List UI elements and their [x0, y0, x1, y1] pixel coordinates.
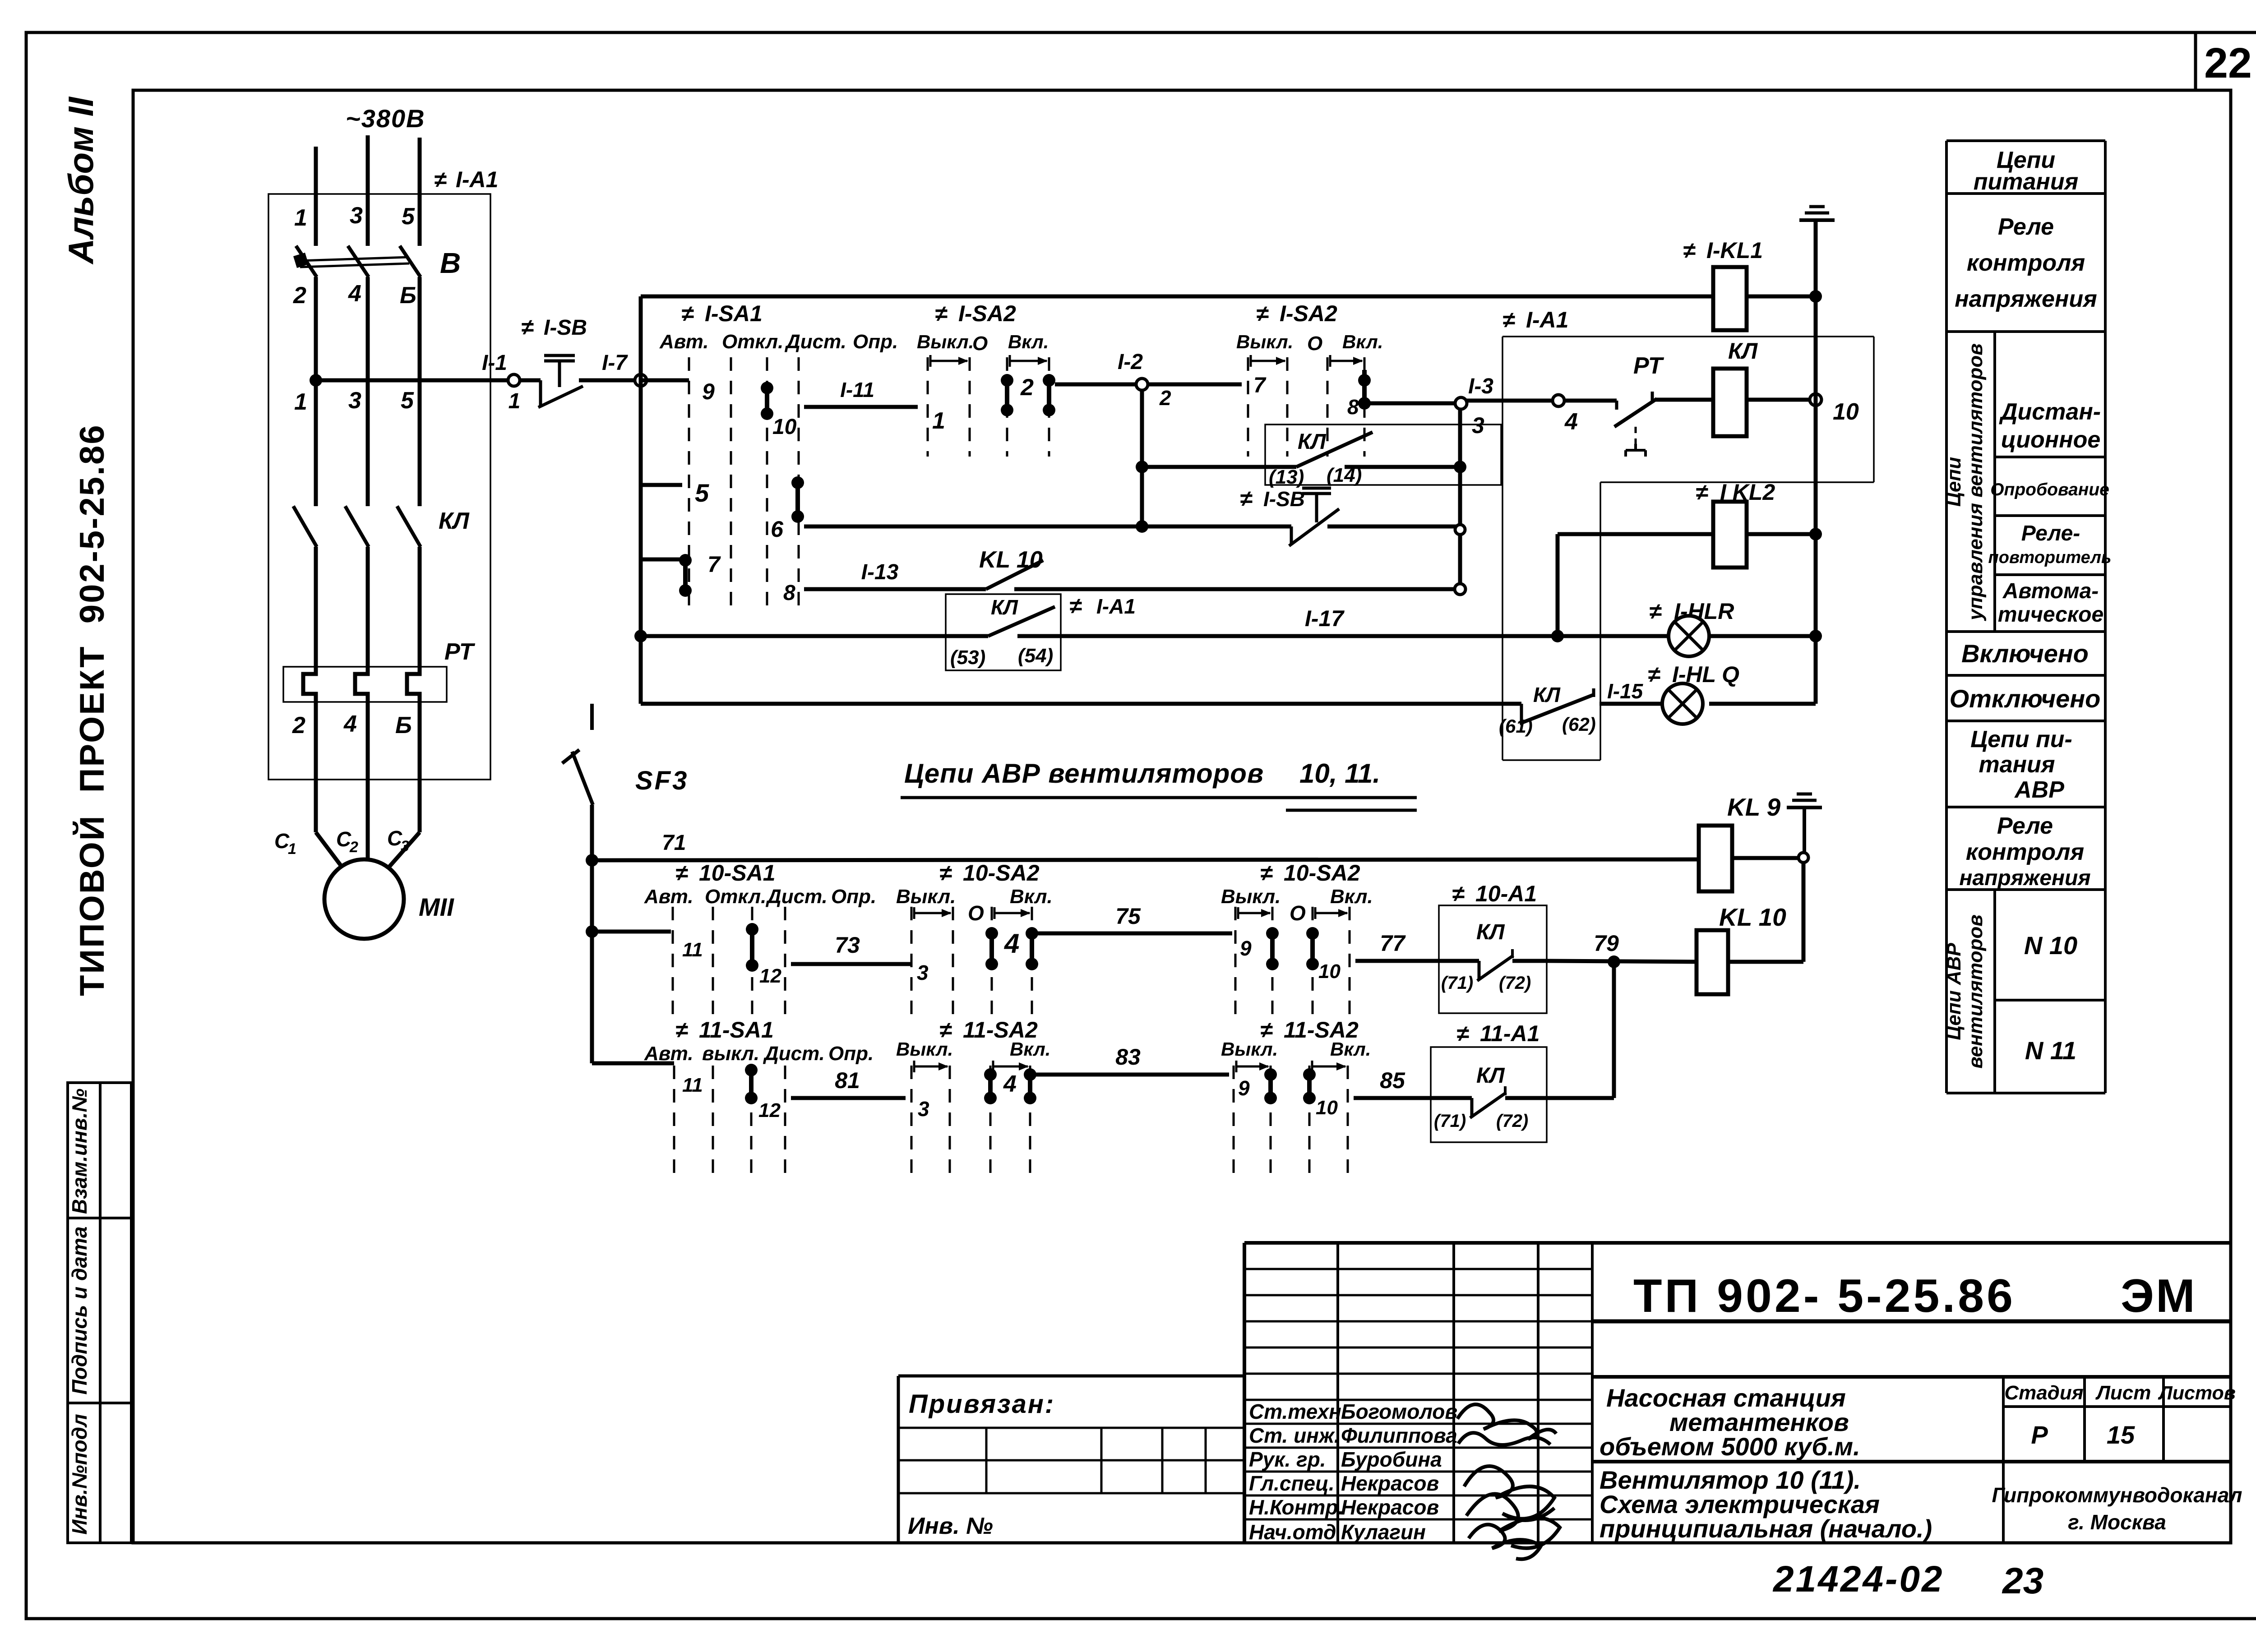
svg-text:Вкл.: Вкл.: [1010, 886, 1053, 908]
svg-text:КЛ: КЛ: [1298, 430, 1327, 454]
svg-text:I-15: I-15: [1607, 679, 1644, 703]
svg-text:C: C: [274, 829, 290, 853]
title block: project name: [1592, 1377, 2231, 1461]
wire 85: [1354, 1068, 1431, 1098]
phase wire L2 top: [366, 135, 370, 246]
svg-text:Филиппова: Филиппова: [1341, 1424, 1457, 1447]
svg-text:Откл.: Откл.: [705, 886, 766, 908]
svg-text:C: C: [336, 827, 351, 851]
svg-text:Выкл.: Выкл.: [896, 886, 956, 908]
svg-text:≠: ≠: [1683, 238, 1696, 263]
svg-text:I-SA2: I-SA2: [1280, 301, 1337, 326]
svg-text:5: 5: [402, 203, 415, 230]
svg-text:Выкл.: Выкл.: [1221, 886, 1281, 908]
svg-text:КЛ: КЛ: [991, 595, 1018, 619]
svg-text:Листов: Листов: [2158, 1382, 2236, 1404]
svg-text:Некрасов: Некрасов: [1341, 1472, 1439, 1495]
table row: power circuits: [1974, 147, 2078, 195]
svg-text:I-7: I-7: [602, 351, 628, 375]
svg-text:4: 4: [1564, 409, 1578, 435]
control feed top bus: [641, 295, 1713, 299]
branch to 11-SA1: [592, 1061, 674, 1066]
left stamp boxes (Vzam.inv, Podpis i data, Inv.N podl): [68, 1083, 131, 1543]
terminal I-1: [508, 374, 520, 413]
pushbutton =I-SB: [520, 314, 635, 407]
svg-text:Б: Б: [395, 712, 412, 738]
svg-text:2: 2: [293, 282, 306, 309]
control tap wire I-1: [316, 351, 508, 380]
svg-text:Стадия: Стадия: [2004, 1382, 2083, 1404]
svg-text:I-SA2: I-SA2: [958, 301, 1016, 326]
SA1 pos 9-10 contact: [641, 379, 797, 439]
table row: N10: [2024, 931, 2077, 960]
lamp =II-HLQ: [1648, 662, 1739, 724]
relay coil KL10: [1697, 903, 1803, 994]
svg-text:10: 10: [1833, 399, 1859, 425]
svg-text:тическое: тическое: [1998, 603, 2103, 627]
svg-text:3: 3: [348, 388, 361, 414]
svg-text:9: 9: [1238, 1076, 1250, 1100]
archive number: [1772, 1559, 2043, 1601]
pin labels 2 4 6 (RT bottom): [292, 711, 412, 738]
svg-text:85: 85: [1380, 1068, 1405, 1093]
pushbutton =II-SB (2nd): [1240, 486, 1460, 546]
svg-text:2: 2: [1020, 374, 1034, 401]
svg-text:(71): (71): [1441, 973, 1473, 993]
wire 81: [791, 1068, 906, 1098]
selector switch =I-SA1: [659, 301, 898, 607]
svg-text:(72): (72): [1499, 973, 1531, 993]
phase wires breaker to contactor: [316, 277, 420, 506]
wire to node I-2: [1055, 383, 1137, 387]
terminal 4: [1553, 395, 1578, 435]
svg-text:ТИПОВОЙ ПРОЕКТ 902-5-25.86: ТИПОВОЙ ПРОЕКТ 902-5-25.86: [73, 424, 111, 996]
svg-text:Дистан-: Дистан-: [1999, 399, 2101, 425]
svg-text:ЭМ: ЭМ: [2121, 1270, 2197, 1322]
svg-text:Н.Контр.: Н.Контр.: [1249, 1495, 1344, 1519]
svg-text:1: 1: [509, 389, 521, 413]
selector =10-SA2 (first): [896, 860, 1053, 1023]
svg-text:1: 1: [932, 408, 945, 434]
svg-text:Цепи пи-: Цепи пи-: [1970, 726, 2072, 752]
circuit breaker B: [293, 246, 461, 279]
wire 79: [1547, 931, 1697, 968]
svg-text:ТП 902- 5-25.86: ТП 902- 5-25.86: [1633, 1270, 2016, 1322]
svg-text:О: О: [1290, 901, 1306, 925]
svg-text:10-SA1: 10-SA1: [699, 860, 776, 886]
signature scribbles: [1457, 1404, 1560, 1559]
svg-text:73: 73: [835, 932, 860, 958]
svg-text:Некрасов: Некрасов: [1341, 1495, 1439, 1519]
ground (top right): [1799, 207, 1835, 220]
svg-text:Вкл.: Вкл.: [1008, 331, 1049, 352]
svg-text:Альбом II: Альбом II: [61, 97, 101, 265]
svg-text:Ст.техн.: Ст.техн.: [1249, 1400, 1347, 1423]
svg-text:Авт.: Авт.: [644, 1043, 693, 1065]
svg-text:≠: ≠: [935, 301, 948, 326]
svg-text:(62): (62): [1562, 714, 1596, 735]
svg-text:выкл.: выкл.: [702, 1043, 759, 1065]
svg-text:О: О: [968, 901, 984, 925]
svg-text:повторитель: повторитель: [1988, 548, 2112, 567]
svg-text:22: 22: [2204, 39, 2252, 87]
svg-text:SF3: SF3: [635, 766, 689, 795]
selector =11-SA1: [644, 1017, 874, 1173]
svg-text:ционное: ционное: [2001, 427, 2101, 453]
svg-text:KL 9: KL 9: [1727, 793, 1781, 821]
bottom rail / wire I-15: [641, 679, 1816, 724]
svg-text:принципиальная (начало.): принципиальная (начало.): [1600, 1514, 1932, 1543]
svg-text:Подпись и дата: Подпись и дата: [68, 1227, 91, 1395]
svg-text:Реле: Реле: [1998, 214, 2054, 240]
table row: automatic: [1998, 579, 2103, 627]
svg-text:12: 12: [759, 965, 781, 987]
svg-text:Откл.: Откл.: [722, 331, 783, 353]
tap junction on phase L1: [310, 374, 322, 387]
svg-text:≠: ≠: [1256, 301, 1269, 326]
svg-text:(72): (72): [1496, 1111, 1528, 1131]
svg-text:15: 15: [2107, 1421, 2135, 1449]
svg-text:Цепи АВР вентиляторов: Цепи АВР вентиляторов: [904, 758, 1264, 789]
wire 73: [791, 932, 911, 964]
right function table: [1946, 141, 2105, 1093]
svg-text:О: О: [1307, 332, 1322, 355]
svg-text:питания: питания: [1974, 169, 2078, 195]
svg-text:I-А1: I-А1: [1526, 307, 1568, 332]
svg-text:РТ: РТ: [1633, 353, 1664, 379]
svg-text:О: О: [972, 332, 988, 355]
svg-text:контроля: контроля: [1966, 839, 2084, 865]
svg-text:РТ: РТ: [444, 639, 476, 665]
svg-text:Инв.№подл: Инв.№подл: [68, 1414, 91, 1534]
title block: stage/sheet columns: [2003, 1377, 2236, 1543]
selector =10-SA2 (second): [1221, 860, 1373, 1023]
svg-text:3: 3: [917, 961, 929, 984]
breaker SF3: [562, 704, 689, 805]
wire I-3 to RT contact: [1467, 399, 1553, 403]
wire 83: [1036, 1044, 1229, 1075]
svg-text:9: 9: [1240, 937, 1252, 960]
svg-text:Дист.: Дист.: [765, 886, 828, 908]
svg-text:АВР: АВР: [2014, 777, 2064, 803]
svg-text:I-SB: I-SB: [544, 316, 587, 340]
svg-text:10-А1: 10-А1: [1475, 881, 1537, 906]
svg-text:23: 23: [2002, 1560, 2043, 1601]
table row: N11: [2025, 1036, 2076, 1065]
svg-text:8: 8: [1347, 395, 1359, 419]
contactor coil KL: [1713, 338, 1810, 436]
title block: sheet name: [1592, 1462, 2231, 1543]
svg-text:75: 75: [1115, 904, 1141, 929]
svg-text:Выкл.: Выкл.: [896, 1038, 953, 1060]
table row: test: [1990, 480, 2109, 499]
svg-text:Вкл.: Вкл.: [1330, 1038, 1371, 1060]
svg-text:Опробование: Опробование: [1990, 480, 2109, 499]
svg-text:≠: ≠: [1696, 480, 1708, 505]
svg-text:В: В: [440, 247, 461, 279]
svg-text:Гипрокоммунводоканал: Гипрокоммунводоканал: [1992, 1483, 2242, 1507]
terminal on KL9 output: [1798, 853, 1808, 863]
svg-text:КЛ: КЛ: [1476, 1064, 1505, 1088]
svg-text:≠: ≠: [521, 314, 534, 340]
svg-text:11: 11: [682, 939, 703, 961]
wire 11-A1 to node 79: [1547, 962, 1614, 1098]
svg-text:≠: ≠: [939, 860, 952, 886]
svg-text:Выкл.: Выкл.: [1236, 331, 1293, 352]
svg-text:8: 8: [783, 581, 795, 605]
pin labels 1 3 5 (breaker top): [294, 203, 415, 231]
svg-text:(71): (71): [1434, 1111, 1466, 1131]
ground (AVR): [1787, 794, 1822, 853]
repeater relay coil =II-KL2: [1551, 480, 1822, 642]
svg-text:Включено: Включено: [1961, 639, 2089, 668]
svg-text:3: 3: [1472, 413, 1484, 438]
svg-text:C: C: [387, 826, 402, 850]
riser at I-3: [1455, 409, 1465, 595]
linked-project box (Privyazan): [898, 1376, 1244, 1543]
AVR left rail: [586, 805, 598, 1063]
svg-text:3: 3: [401, 838, 409, 855]
svg-text:1: 1: [288, 840, 296, 858]
svg-text:≠: ≠: [681, 301, 694, 326]
svg-text:Опр.: Опр.: [828, 1043, 874, 1065]
svg-text:4: 4: [1004, 928, 1019, 959]
svg-text:6: 6: [771, 517, 784, 542]
wire 71: [592, 831, 1699, 860]
svg-text:7: 7: [707, 552, 721, 577]
svg-text:I-А1: I-А1: [456, 167, 498, 192]
svg-text:Выкл.: Выкл.: [1221, 1038, 1278, 1060]
svg-text:Ст. инж.: Ст. инж.: [1249, 1424, 1340, 1447]
table row: remote: [1999, 399, 2101, 453]
sheet number box 22: [2196, 32, 2252, 90]
svg-text:Реле-: Реле-: [2021, 521, 2080, 545]
svg-text:≠: ≠: [434, 167, 447, 192]
relay coil KL9: [1699, 793, 1798, 891]
aux contact KL (13)(14): [1142, 425, 1501, 488]
svg-text:≠: ≠: [675, 860, 688, 886]
svg-text:I-KL1: I-KL1: [1706, 238, 1763, 263]
svg-text:Р: Р: [2031, 1421, 2048, 1449]
svg-text:контроля: контроля: [1967, 250, 2085, 276]
svg-text:≠: ≠: [1648, 662, 1660, 687]
svg-text:1: 1: [294, 389, 307, 415]
svg-text:5: 5: [695, 479, 709, 507]
svg-text:11-А1: 11-А1: [1480, 1021, 1539, 1046]
svg-text:3: 3: [350, 203, 363, 229]
svg-text:Реле: Реле: [1997, 813, 2053, 839]
svg-text:(13): (13): [1269, 466, 1304, 488]
motor leads C1 C2 C3: [274, 703, 420, 867]
svg-text:N 10: N 10: [2024, 931, 2077, 960]
node I-2: [1118, 350, 1171, 410]
table row: repeater relay: [1988, 521, 2112, 567]
SA2 pos 2 contacts: [1001, 374, 1055, 416]
table row: AVR power circuits: [1970, 726, 2072, 803]
svg-text:Кулагин: Кулагин: [1341, 1520, 1426, 1544]
AVR right bus: [1728, 863, 1803, 962]
svg-text:≠: ≠: [1069, 593, 1082, 618]
svg-text:МII: МII: [419, 893, 454, 921]
svg-text:7: 7: [1253, 374, 1267, 397]
svg-text:≠: ≠: [675, 1017, 688, 1043]
svg-text:I-3: I-3: [1468, 374, 1493, 398]
node I-7: [602, 351, 647, 386]
svg-text:10: 10: [772, 415, 797, 439]
svg-text:Привязан:: Привязан:: [909, 1389, 1055, 1419]
svg-text:(61): (61): [1499, 715, 1533, 737]
svg-text:(53): (53): [950, 646, 985, 669]
svg-text:Автома-: Автома-: [2002, 579, 2099, 603]
svg-text:10: 10: [1318, 960, 1341, 983]
aux contact KL (53)(54): [946, 593, 1136, 670]
svg-text:I-SA1: I-SA1: [705, 301, 763, 326]
svg-text:(14): (14): [1327, 464, 1362, 486]
signature names: [1249, 1400, 1457, 1544]
motor MII: [324, 859, 454, 939]
SA2 pos 1 (wire end): [932, 408, 945, 434]
pin labels 2 4 6 (breaker bottom): [293, 281, 416, 309]
svg-text:Вкл.: Вкл.: [1010, 1038, 1050, 1060]
lamp =II-HLR: [1649, 599, 1734, 656]
margin label: Typical project 902-5-25.86: [73, 424, 111, 996]
svg-text:Лист: Лист: [2095, 1382, 2151, 1404]
svg-text:77: 77: [1380, 931, 1406, 956]
svg-text:≠: ≠: [1649, 599, 1662, 624]
phase wire L3 top: [418, 138, 422, 246]
phase wires contactor to RT: [316, 547, 420, 668]
voltage relay coil =II-KL1: [1683, 238, 1822, 330]
svg-text:81: 81: [835, 1068, 860, 1093]
svg-text:I-17: I-17: [1305, 606, 1345, 631]
svg-text:Вкл.: Вкл.: [1330, 886, 1373, 908]
title block grid: [1244, 1243, 2231, 1543]
supply label ~380V: [346, 104, 425, 133]
svg-text:Инв. №: Инв. №: [908, 1513, 993, 1539]
svg-text:10: 10: [1316, 1097, 1338, 1119]
svg-text:9: 9: [702, 379, 715, 404]
svg-text:I-1: I-1: [482, 351, 507, 375]
svg-text:Дист.: Дист.: [784, 331, 846, 353]
bypass wire to SB2: [804, 525, 1291, 529]
table row: switched on: [1961, 639, 2089, 668]
svg-text:Б: Б: [400, 282, 416, 309]
svg-text:Гл.спец.: Гл.спец.: [1249, 1472, 1335, 1495]
svg-text:71: 71: [662, 831, 686, 855]
svg-text:11-SA1: 11-SA1: [699, 1017, 774, 1043]
svg-text:Нач.отд: Нач.отд: [1249, 1520, 1336, 1544]
title block: organization: [1992, 1483, 2242, 1534]
phase wire L1 top: [314, 147, 318, 246]
section title: AVR circuits of fans 10,11: [901, 758, 1417, 810]
svg-text:≠: ≠: [1260, 860, 1273, 886]
svg-text:12: 12: [758, 1099, 781, 1121]
svg-text:I-13: I-13: [861, 560, 899, 584]
svg-text:Рук. гр.: Рук. гр.: [1249, 1448, 1326, 1471]
svg-text:4: 4: [1003, 1071, 1017, 1097]
margin label: Album II: [61, 97, 101, 265]
thermal relay RT heaters: [283, 639, 476, 703]
SA2r feed wire: [1148, 374, 1267, 397]
svg-text:KL 10: KL 10: [1719, 903, 1786, 931]
svg-text:3: 3: [918, 1097, 929, 1121]
selector switch =II-SA2 (right group): [1236, 301, 1383, 457]
svg-text:≠: ≠: [1502, 307, 1515, 332]
svg-text:11: 11: [682, 1074, 703, 1096]
title block: document number: [1592, 1270, 2231, 1322]
svg-text:4: 4: [348, 281, 361, 307]
svg-text:2: 2: [349, 839, 358, 856]
svg-text:Авт.: Авт.: [659, 331, 709, 353]
svg-text:KL 10: KL 10: [979, 547, 1043, 573]
selector switch =II-SA2 (left group): [917, 301, 1049, 457]
device box =II-A1 (control, thin outline): [1502, 307, 1874, 760]
svg-text:I-2: I-2: [1118, 350, 1143, 374]
wire I-17: [634, 606, 1822, 642]
table row: switched off: [1950, 684, 2101, 713]
svg-text:Буробина: Буробина: [1341, 1448, 1442, 1471]
svg-text:Дист.: Дист.: [763, 1043, 825, 1065]
svg-text:I-SB: I-SB: [1263, 487, 1305, 511]
wire I-11: [804, 378, 918, 407]
device box =II-A1 (power): [268, 167, 498, 780]
wire to node I-3: [1370, 401, 1455, 406]
device box =10-A1 with contact KL: [1439, 881, 1547, 1013]
SA2r pos 8 contact: [1347, 370, 1371, 419]
rotated band: fan AVR circuits: [1943, 914, 1987, 1069]
svg-text:КЛ: КЛ: [1533, 683, 1561, 706]
svg-text:≠: ≠: [1240, 486, 1253, 511]
svg-text:N 11: N 11: [2025, 1036, 2076, 1065]
svg-text:г. Москва: г. Москва: [2068, 1510, 2166, 1534]
pin labels 1 3 5 (contactor): [294, 388, 414, 415]
svg-text:напряжения: напряжения: [1959, 866, 2090, 890]
svg-text:(54): (54): [1018, 645, 1053, 667]
svg-text:10-SA2: 10-SA2: [1284, 860, 1360, 886]
svg-text:79: 79: [1594, 931, 1619, 956]
svg-text:Выкл.: Выкл.: [917, 331, 974, 352]
svg-text:I-А1: I-А1: [1096, 595, 1136, 618]
svg-text:Богомолов: Богомолов: [1341, 1400, 1457, 1423]
terminal 10 on bus: [1810, 394, 1859, 425]
svg-text:83: 83: [1115, 1044, 1141, 1070]
svg-text:≠: ≠: [1456, 1021, 1469, 1046]
contactor KL main contacts: [293, 506, 470, 547]
svg-text:21424-02: 21424-02: [1772, 1559, 1944, 1600]
svg-text:Отключено: Отключено: [1950, 684, 2101, 713]
right vertical bus: [1814, 220, 1818, 704]
selector =11-SA2 (first): [896, 1017, 1050, 1173]
riser from I-2: [1136, 390, 1148, 533]
svg-text:Опр.: Опр.: [853, 331, 898, 353]
svg-text:4: 4: [343, 711, 357, 737]
aux contact KL (61)(62) labels: [1499, 683, 1596, 737]
svg-text:КЛ: КЛ: [1476, 920, 1505, 944]
svg-text:КЛ: КЛ: [1728, 338, 1758, 364]
svg-text:2: 2: [1159, 386, 1171, 410]
wire I-13: [783, 560, 986, 605]
device box =11-A1 with contact KL: [1431, 1021, 1547, 1142]
svg-text:I-11: I-11: [840, 378, 874, 401]
svg-text:10, 11.: 10, 11.: [1299, 758, 1380, 789]
node I-3: [1455, 374, 1493, 438]
svg-text:Опр.: Опр.: [831, 886, 876, 908]
control box left rail: [639, 296, 643, 704]
svg-text:Вкл.: Вкл.: [1342, 331, 1383, 352]
svg-text:Авт.: Авт.: [644, 886, 693, 908]
wire 77: [1355, 931, 1439, 961]
svg-text:КЛ: КЛ: [439, 508, 470, 534]
